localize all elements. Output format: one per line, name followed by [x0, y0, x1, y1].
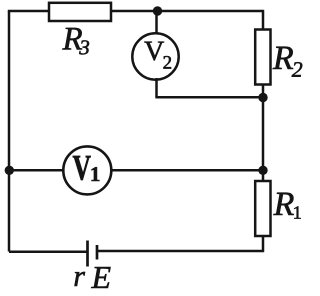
battery plate long (r E cell)	[86, 241, 89, 267]
resistor R1	[255, 181, 270, 236]
wire: top left segment	[8, 10, 49, 13]
label E	[91, 267, 110, 288]
wire: right rail lower	[262, 236, 265, 252]
wire: right rail middle	[262, 84, 265, 182]
wire: left rail	[8, 11, 11, 252]
wire: top right segment	[111, 10, 264, 13]
voltmeter V2	[132, 33, 178, 79]
label V2	[144, 42, 164, 61]
wire: middle left segment	[9, 169, 64, 172]
voltmeter V1	[63, 146, 111, 194]
label R3	[62, 28, 82, 50]
battery plate short	[96, 245, 99, 260]
label R1	[273, 193, 293, 215]
node D (left middle junction)	[5, 166, 14, 175]
label R2	[273, 47, 293, 69]
node A (top junction)	[153, 6, 162, 15]
node B (below R2)	[258, 93, 267, 102]
wire: right rail upper	[262, 10, 265, 30]
wire: bottom right segment	[97, 250, 264, 253]
wire: bottom left segment	[9, 250, 88, 253]
wire: V2 to node B horizontal	[155, 96, 263, 99]
wire: V2 top lead	[155, 11, 158, 35]
resistor R3	[49, 3, 111, 21]
wire: middle right segment	[112, 169, 264, 172]
label V1	[73, 156, 91, 180]
label r	[75, 272, 86, 286]
wire: V2 bottom lead	[155, 78, 158, 97]
node C (right middle junction)	[258, 166, 267, 175]
resistor R2	[255, 30, 270, 85]
